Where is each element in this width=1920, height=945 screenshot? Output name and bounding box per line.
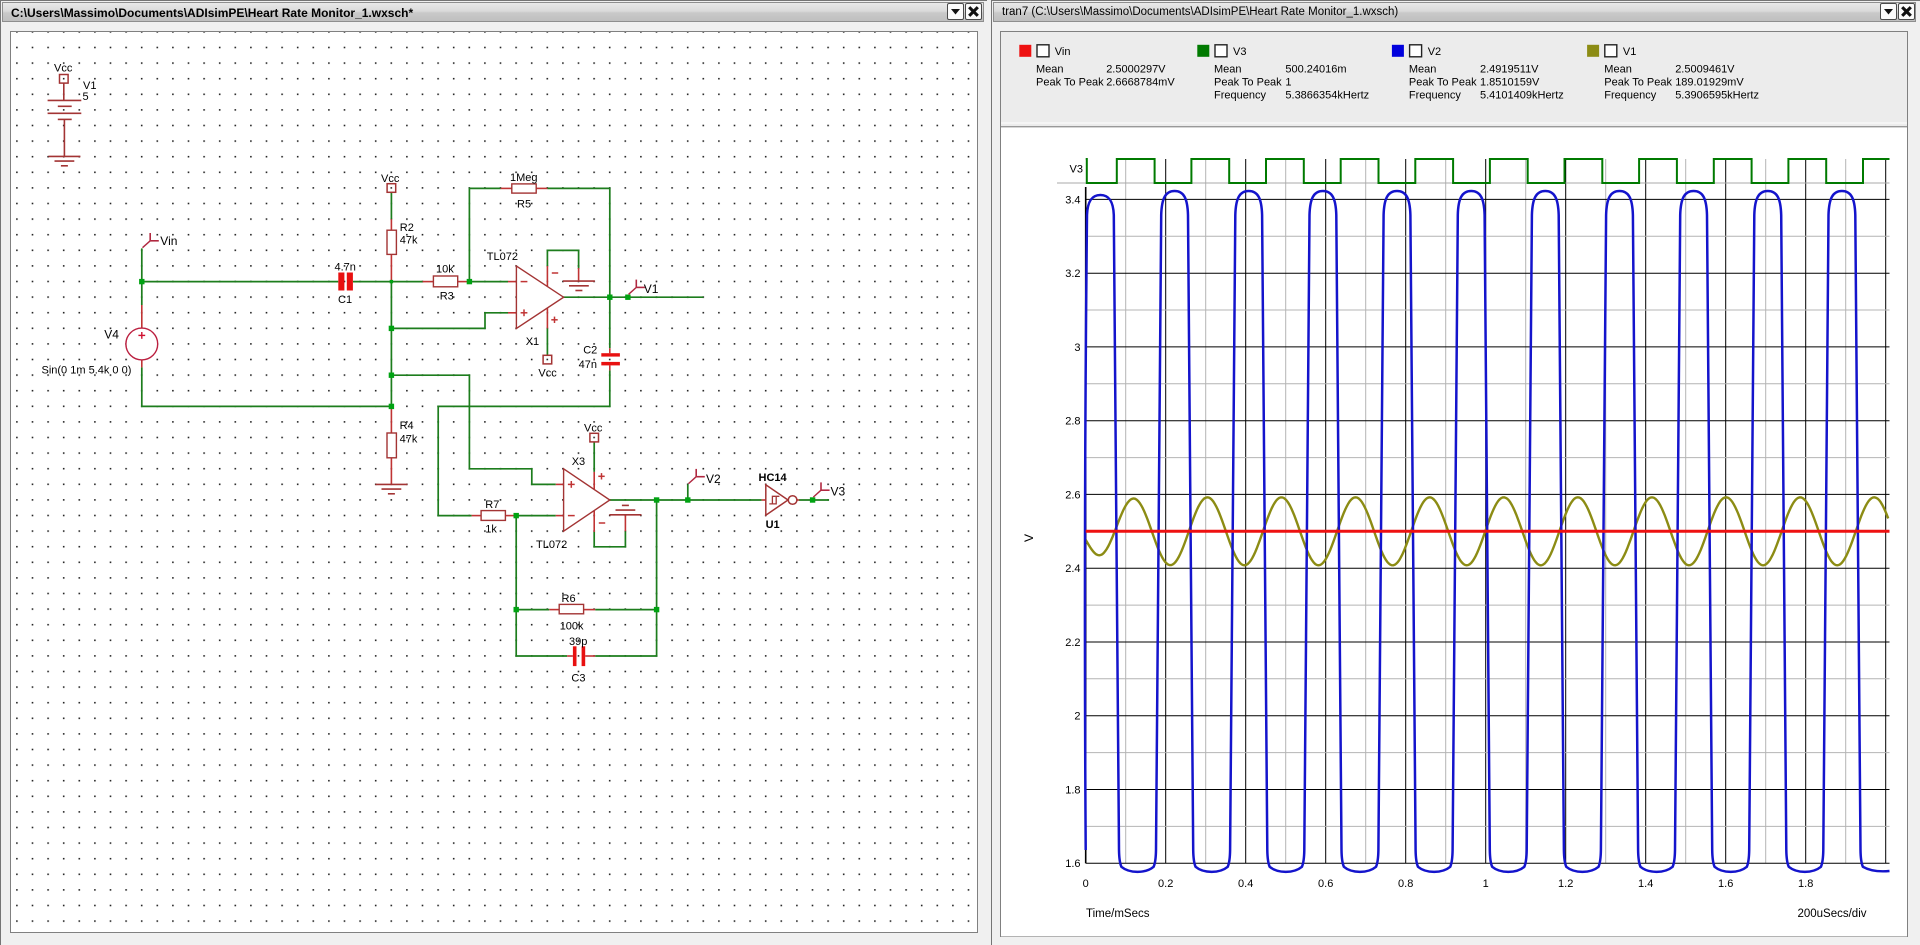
svg-text:C1: C1 (338, 294, 352, 306)
svg-text:1k: 1k (485, 523, 497, 535)
svg-text:R2: R2 (400, 222, 414, 234)
svg-text:Time/mSecs: Time/mSecs (1086, 908, 1150, 920)
svg-text:200uSecs/div: 200uSecs/div (1797, 908, 1866, 920)
svg-text:0.8: 0.8 (1398, 878, 1413, 890)
svg-text:HC14: HC14 (759, 472, 788, 484)
svg-text:1.2: 1.2 (1558, 878, 1573, 890)
svg-text:1: 1 (1285, 76, 1291, 88)
svg-text:2.5009461V: 2.5009461V (1675, 63, 1735, 75)
svg-text:1.8: 1.8 (1065, 785, 1080, 797)
svg-text:R5: R5 (517, 199, 531, 211)
svg-text:500.24016m: 500.24016m (1285, 63, 1346, 75)
svg-text:189.01929mV: 189.01929mV (1675, 76, 1744, 88)
svg-text:2.8: 2.8 (1065, 416, 1080, 428)
svg-text:V2: V2 (706, 472, 721, 486)
svg-text:5.3866354kHertz: 5.3866354kHertz (1285, 89, 1369, 101)
svg-text:3: 3 (1074, 342, 1080, 354)
svg-text:V1: V1 (644, 282, 659, 296)
svg-text:C2: C2 (583, 344, 597, 356)
svg-text:2.4: 2.4 (1065, 563, 1080, 575)
svg-text:V2: V2 (1428, 46, 1441, 58)
svg-text:V3: V3 (1070, 164, 1083, 176)
svg-text:10k: 10k (436, 263, 454, 275)
svg-text:0.2: 0.2 (1158, 878, 1173, 890)
svg-text:Peak To Peak: Peak To Peak (1036, 76, 1104, 88)
svg-text:0.6: 0.6 (1318, 878, 1333, 890)
svg-text:1.4: 1.4 (1638, 878, 1653, 890)
svg-text:2.2: 2.2 (1065, 637, 1080, 649)
svg-text:1.6: 1.6 (1718, 878, 1733, 890)
svg-text:R3: R3 (440, 290, 454, 302)
svg-text:2.4919511V: 2.4919511V (1480, 63, 1539, 75)
svg-text:0.4: 0.4 (1238, 878, 1253, 890)
svg-text:V3: V3 (831, 485, 846, 499)
svg-text:Peak To Peak: Peak To Peak (1604, 76, 1672, 88)
svg-text:2: 2 (1074, 711, 1080, 723)
svg-text:Mean: Mean (1409, 63, 1437, 75)
svg-text:100k: 100k (560, 621, 584, 633)
svg-text:5.3906595kHertz: 5.3906595kHertz (1675, 89, 1759, 101)
svg-text:4.7n: 4.7n (335, 262, 356, 274)
svg-text:X3: X3 (572, 456, 585, 468)
svg-text:1.8510159V: 1.8510159V (1480, 76, 1540, 88)
svg-text:5.4101409kHertz: 5.4101409kHertz (1480, 89, 1564, 101)
svg-text:V1: V1 (1623, 46, 1636, 58)
svg-text:1.6: 1.6 (1065, 858, 1080, 870)
svg-text:2.5000297V: 2.5000297V (1106, 63, 1166, 75)
svg-text:R4: R4 (400, 420, 414, 432)
svg-text:39p: 39p (569, 636, 587, 648)
svg-text:TL072: TL072 (536, 539, 567, 551)
svg-text:47k: 47k (400, 434, 418, 446)
svg-text:Mean: Mean (1214, 63, 1242, 75)
svg-text:3.2: 3.2 (1065, 268, 1080, 280)
svg-text:Sin(0 1m 5.4k 0 0): Sin(0 1m 5.4k 0 0) (42, 365, 132, 377)
svg-text:1.8: 1.8 (1798, 878, 1813, 890)
svg-text:V: V (1022, 534, 1036, 542)
svg-text:3.4: 3.4 (1065, 194, 1080, 206)
svg-text:Mean: Mean (1604, 63, 1632, 75)
svg-text:1: 1 (1483, 878, 1489, 890)
svg-text:U1: U1 (766, 519, 780, 531)
svg-text:V3: V3 (1233, 46, 1246, 58)
svg-text:Mean: Mean (1036, 63, 1064, 75)
svg-text:1Meg: 1Meg (510, 172, 538, 184)
svg-text:Vcc: Vcc (381, 173, 400, 185)
svg-text:47k: 47k (400, 235, 418, 247)
svg-text:Peak To Peak: Peak To Peak (1409, 76, 1477, 88)
svg-text:47n: 47n (579, 359, 597, 371)
svg-text:C3: C3 (571, 672, 585, 684)
svg-text:R6: R6 (562, 593, 576, 605)
svg-text:2.6668784mV: 2.6668784mV (1106, 76, 1175, 88)
svg-text:2.6: 2.6 (1065, 489, 1080, 501)
svg-text:R7: R7 (485, 499, 499, 511)
svg-text:Frequency: Frequency (1409, 89, 1461, 101)
svg-text:TL072: TL072 (487, 251, 518, 263)
svg-text:Vin: Vin (160, 234, 177, 248)
svg-text:0: 0 (1083, 878, 1089, 890)
svg-text:Vin: Vin (1055, 46, 1071, 58)
svg-text:Frequency: Frequency (1214, 89, 1266, 101)
svg-text:5: 5 (83, 91, 89, 103)
svg-text:Peak To Peak: Peak To Peak (1214, 76, 1282, 88)
svg-text:Vcc: Vcc (538, 368, 557, 380)
svg-text:Vcc: Vcc (584, 422, 603, 434)
svg-text:V4: V4 (104, 328, 119, 342)
svg-text:Vcc: Vcc (54, 63, 73, 75)
svg-text:X1: X1 (526, 336, 539, 348)
svg-text:Frequency: Frequency (1604, 89, 1656, 101)
